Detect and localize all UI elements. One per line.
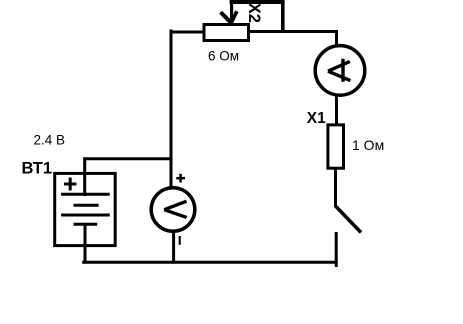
wire: bottom return (82, 261, 338, 264)
ammeter letter A (rotated, drawn) (328, 61, 350, 71)
battery BT1 box (55, 173, 115, 245)
wire: battery top to left branch junction (83, 157, 172, 160)
voltmeter V1 circle (151, 188, 195, 232)
switch S1 lower contact lead (335, 232, 338, 267)
battery top lead (83, 158, 86, 197)
battery plate short 1 (74, 204, 99, 207)
voltmeter letter V (rotated, drawn) (164, 201, 186, 210)
wire: wiper top horizontal (230, 0, 285, 4)
voltmeter V1 plus label (176, 177, 185, 180)
voltmeter bottom lead (172, 230, 175, 264)
resistor X1 body (328, 125, 344, 168)
battery plate short 2 (74, 223, 98, 226)
wire: top-left horizontal from left branch to rheostat (170, 31, 206, 34)
rheostat wiper arrowhead (221, 12, 232, 23)
battery plate long 1 (61, 193, 110, 196)
voltmeter V1 minus label (rotated dash) (179, 236, 181, 245)
ammeter A1 circle (315, 46, 365, 96)
wire: ammeter to resistor X1 (335, 95, 338, 126)
rheostat R1 (6 Ом) body (204, 25, 249, 41)
wire: left vertical branch (rheostat left terminal down to voltmeter top) (170, 30, 173, 189)
battery plate long 2 (61, 214, 110, 217)
battery bottom lead (84, 224, 87, 263)
rheostat wiper arrow lead (230, 0, 233, 23)
battery plus sign (64, 183, 76, 186)
wire: rheostat right terminal to ammeter branch (248, 30, 338, 33)
wire: down to ammeter (335, 30, 338, 47)
svg-text:X1: X1 (307, 110, 326, 127)
wire: wiper loop right vertical down to right terminal wire (281, 0, 285, 33)
switch S1 blade (open) (335, 206, 361, 233)
svg-text:X2: X2 (245, 3, 263, 23)
svg-text:6 Ом: 6 Ом (208, 49, 239, 64)
svg-text:1 Ом: 1 Ом (352, 137, 384, 153)
svg-text:2.4 В: 2.4 В (34, 133, 66, 148)
wire: X1 to switch (334, 168, 337, 206)
svg-text:ВТ1: ВТ1 (22, 160, 53, 178)
